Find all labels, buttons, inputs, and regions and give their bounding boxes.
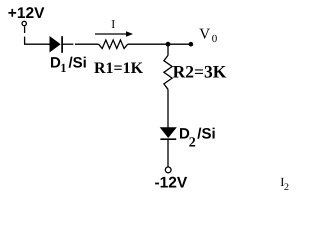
svg-text:I: I <box>111 17 115 31</box>
wire corner to diode D1 anode <box>24 43 50 45</box>
svg-text:1: 1 <box>60 61 66 75</box>
diode D1 cathode bar <box>61 36 63 53</box>
svg-text:-12V: -12V <box>155 175 188 192</box>
wire R1 to junction node <box>128 43 168 45</box>
terminal -12V <box>165 167 171 173</box>
junction dot <box>166 42 171 47</box>
svg-text:/Si: /Si <box>197 125 215 142</box>
resistor R2 zigzag <box>164 55 172 89</box>
svg-text:R1=1K: R1=1K <box>94 60 144 77</box>
svg-text:2: 2 <box>284 182 289 193</box>
wire D2 cathode down to -12V terminal <box>167 139 169 167</box>
wire from +12V terminal down (upper segment) <box>24 26 26 33</box>
wire from D1 cathode (segment a) <box>62 43 73 45</box>
svg-text:/Si: /Si <box>69 55 87 72</box>
svg-text:0: 0 <box>212 33 218 45</box>
wire R2 to diode D2 <box>167 89 169 127</box>
output terminal dot <box>189 42 194 47</box>
current arrow <box>95 33 128 35</box>
diode D1 triangle <box>50 36 61 53</box>
svg-text:R2=3K: R2=3K <box>173 62 227 82</box>
svg-text:2: 2 <box>189 136 196 151</box>
resistor R1 zigzag <box>99 40 128 49</box>
diode D2 triangle <box>160 127 177 138</box>
wire junction to output terminal <box>168 43 191 45</box>
terminal +12V <box>22 21 26 25</box>
wire from +12V terminal down (lower segment) <box>24 37 26 45</box>
diode D2 cathode bar <box>160 138 176 140</box>
svg-text:V: V <box>199 27 210 43</box>
wire from D1 cathode to R1 (segment b) <box>75 43 99 45</box>
svg-text:+12V: +12V <box>8 5 45 22</box>
wire junction down to R2 <box>167 44 169 55</box>
